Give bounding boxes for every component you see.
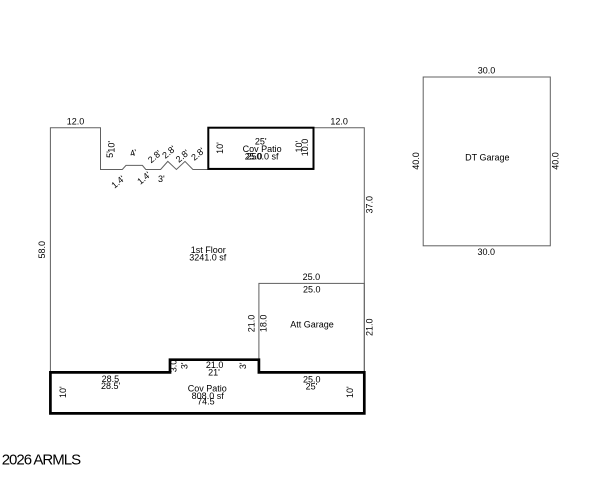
svg-text:3': 3' (158, 174, 165, 184)
cov patio bottom box (50, 360, 364, 414)
svg-text:25.0: 25.0 (245, 152, 263, 162)
svg-text:18.0: 18.0 (258, 315, 268, 333)
svg-text:Att Garage: Att Garage (290, 319, 334, 329)
svg-text:10': 10' (106, 141, 116, 153)
svg-text:40.0: 40.0 (411, 152, 421, 170)
svg-text:3': 3' (179, 362, 189, 369)
svg-text:21.0: 21.0 (365, 318, 375, 336)
1st floor outline (50, 128, 364, 373)
svg-text:30.0: 30.0 (478, 66, 496, 76)
svg-text:DT Garage: DT Garage (465, 153, 509, 163)
svg-text:10': 10' (58, 386, 68, 398)
svg-text:12.0: 12.0 (67, 116, 85, 126)
svg-text:74.5: 74.5 (197, 396, 215, 406)
svg-text:3': 3' (238, 362, 248, 369)
svg-text:10.0: 10.0 (300, 139, 310, 157)
svg-text:37.0: 37.0 (364, 196, 374, 214)
svg-text:10': 10' (345, 386, 355, 398)
svg-text:3.0: 3.0 (169, 360, 179, 373)
svg-text:25': 25' (306, 382, 318, 392)
svg-text:10': 10' (215, 142, 225, 154)
svg-text:12.0: 12.0 (330, 116, 348, 126)
svg-text:21.0: 21.0 (247, 315, 257, 333)
svg-text:25.0: 25.0 (303, 272, 321, 282)
dt garage outline (423, 77, 550, 246)
att garage outline (259, 283, 364, 372)
svg-text:40.0: 40.0 (551, 152, 561, 170)
cov patio top box (208, 128, 313, 169)
svg-text:58.0: 58.0 (37, 241, 47, 259)
svg-text:2026 ARMLS: 2026 ARMLS (2, 452, 81, 469)
svg-text:28.5': 28.5' (101, 381, 121, 391)
svg-text:3241.0 sf: 3241.0 sf (189, 253, 227, 263)
svg-text:30.0: 30.0 (478, 247, 496, 257)
svg-text:21': 21' (208, 367, 220, 377)
svg-text:25.0: 25.0 (303, 285, 321, 295)
